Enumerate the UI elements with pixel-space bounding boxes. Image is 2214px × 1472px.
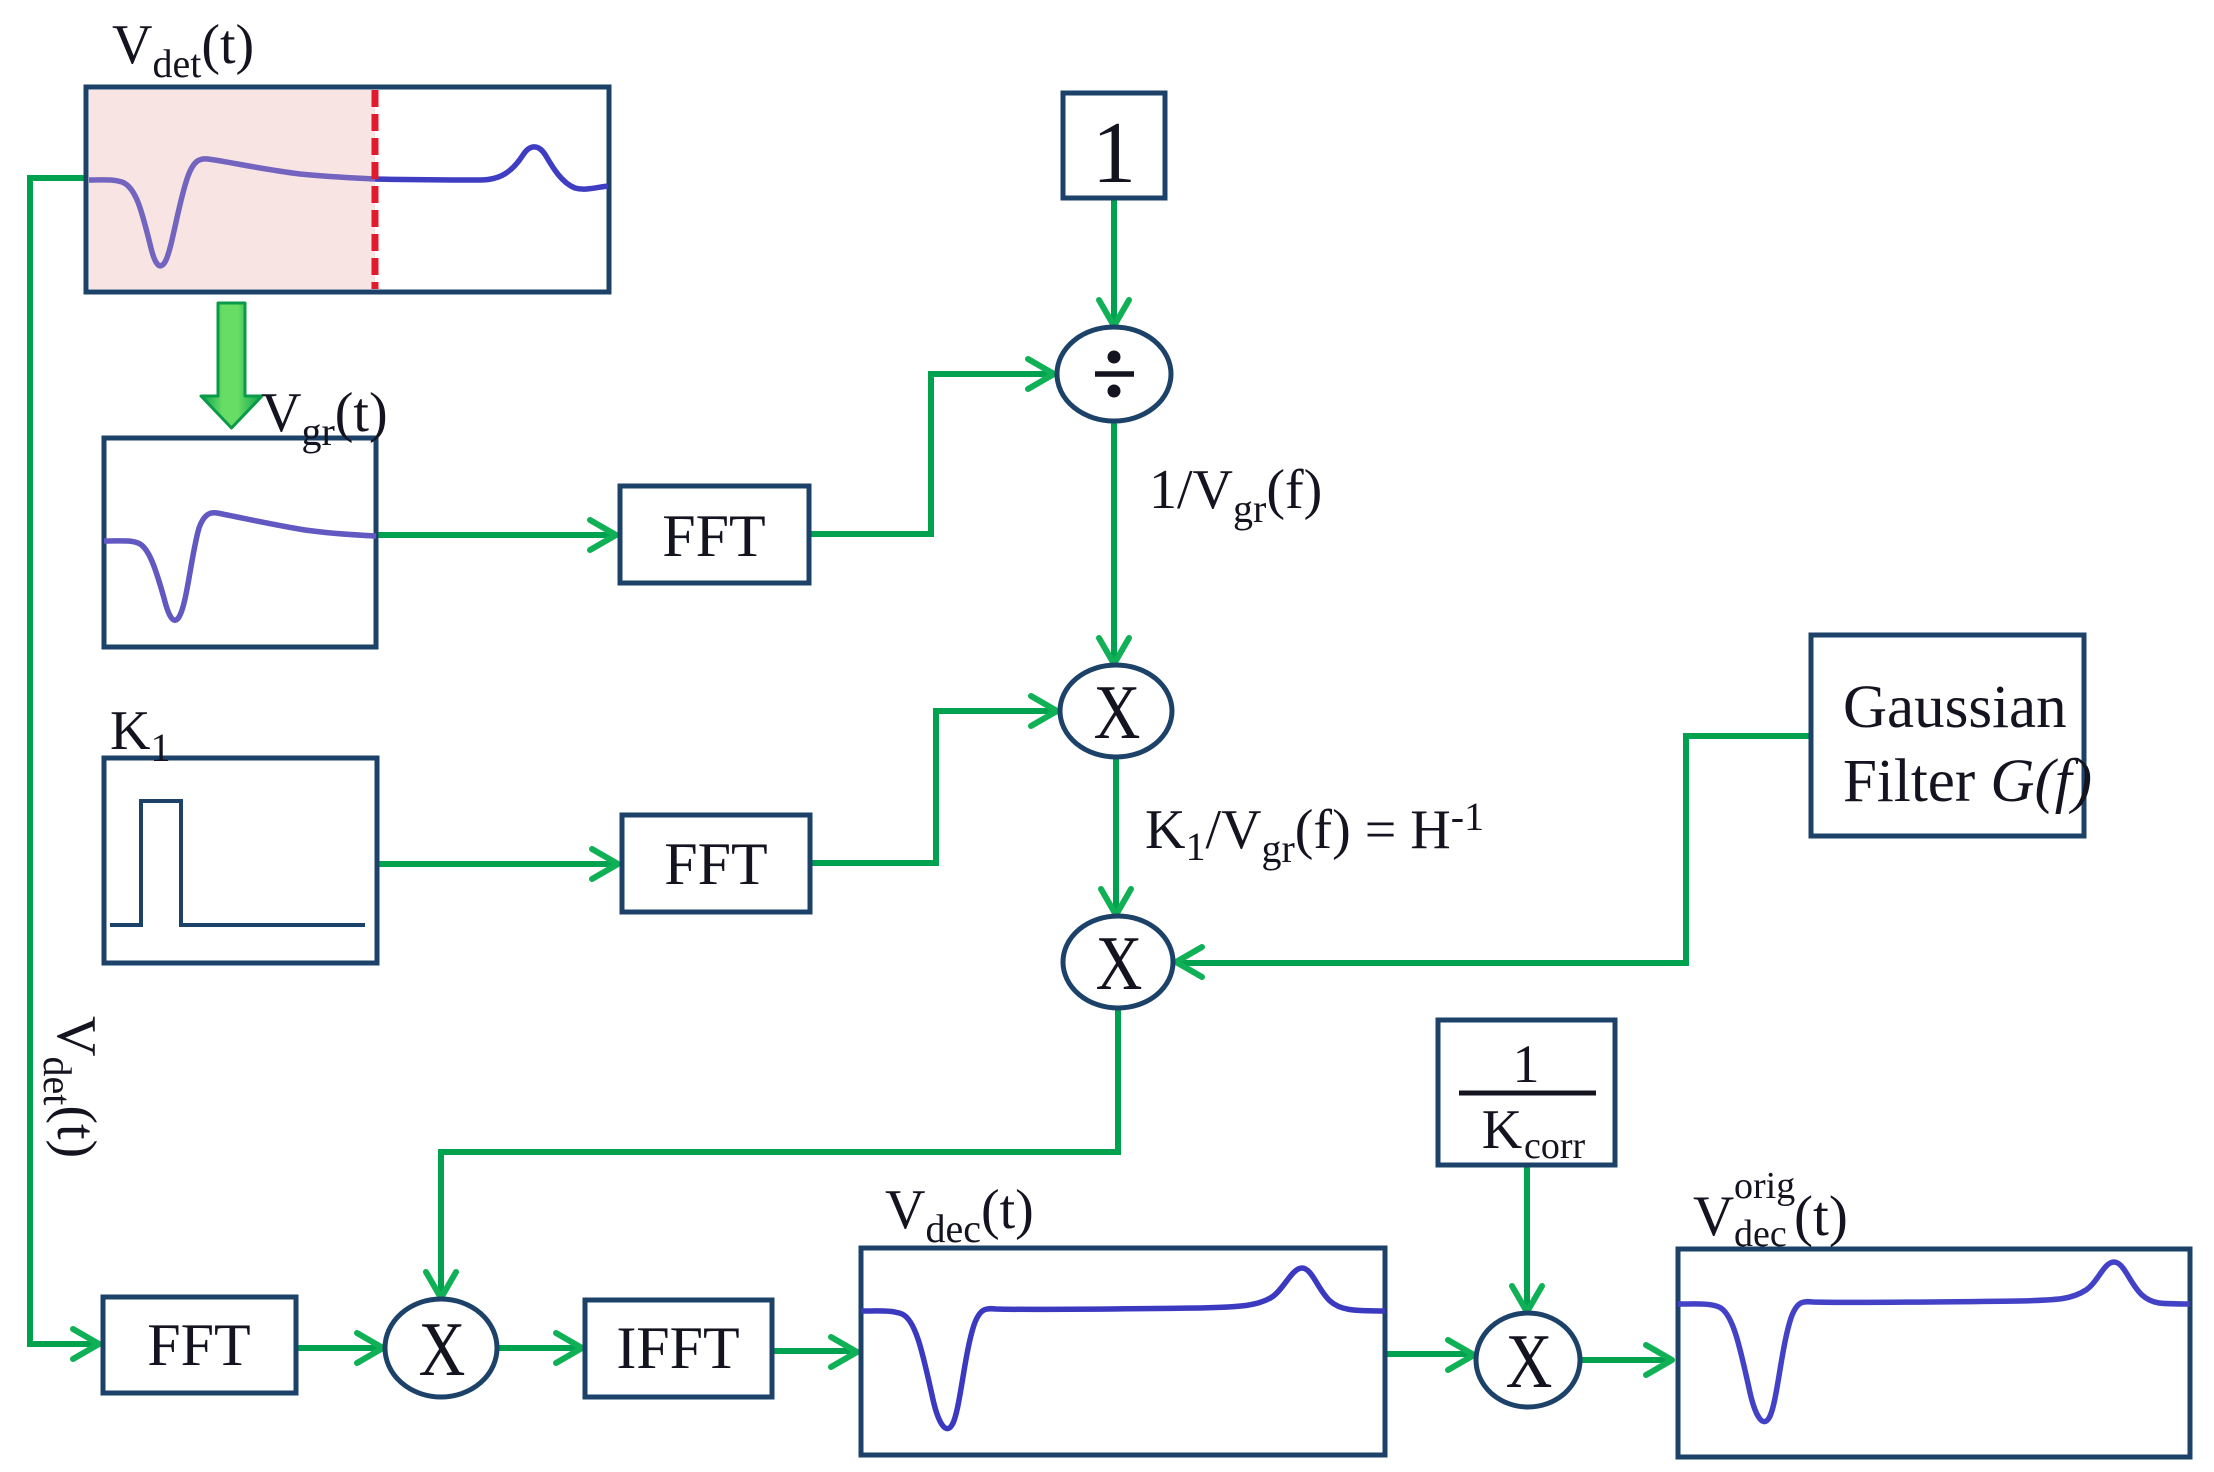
svg-text:FFT: FFT — [664, 831, 767, 897]
svg-text:corr: corr — [1524, 1125, 1586, 1167]
svg-text:(t): (t) — [1794, 1185, 1848, 1248]
svg-text:X: X — [419, 1308, 466, 1392]
svg-text:1: 1 — [1513, 1034, 1540, 1094]
svg-text:FFT: FFT — [147, 1312, 250, 1378]
svg-text:dec: dec — [1734, 1213, 1787, 1255]
svg-text:IFFT: IFFT — [616, 1315, 739, 1381]
svg-text:orig: orig — [1734, 1165, 1795, 1207]
svg-text:Gaussian: Gaussian — [1843, 674, 2067, 741]
svg-text:Filter G(f): Filter G(f) — [1843, 748, 2092, 815]
svg-text:X: X — [1094, 671, 1141, 755]
svg-text:FFT: FFT — [662, 503, 765, 569]
svg-text:X: X — [1096, 922, 1143, 1006]
svg-text:V: V — [1693, 1185, 1734, 1248]
svg-text:K: K — [1482, 1099, 1522, 1161]
svg-text:X: X — [1506, 1320, 1553, 1404]
svg-text:1: 1 — [1092, 105, 1136, 202]
